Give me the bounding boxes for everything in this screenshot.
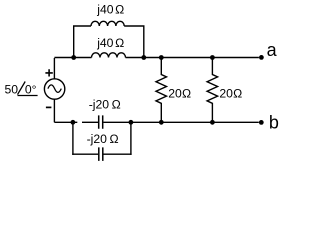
wire: inductor loop top-left lead [73,25,91,27]
svg-text:j40Ω: j40Ω [96,36,124,50]
inductor L1 (j40 ohm, top branch) [91,21,124,26]
+ polarity mark [45,69,52,76]
wire: capacitor loop right vertical [130,122,132,155]
junction dot: capacitor loop left on bottom rail [71,120,76,125]
junction dot: inductor loop right on top rail [141,55,146,60]
svg-text:20Ω: 20Ω [168,86,191,100]
wire: capacitor loop left vertical [72,122,74,155]
wire: source bottom lead [53,99,55,122]
voltage source VS circle [44,79,64,99]
wire: bottom rail segment from source corner [54,121,77,123]
angle symbol slash of source label [18,82,26,95]
junction dot: resistor R1 bottom [159,120,164,125]
wire: bottom rail segment from capacitor C1 to terminal b [103,121,258,123]
junction dot: inductor loop left on top rail [71,55,76,60]
svg-text:a: a [267,40,278,60]
wire: inductor loop left vertical [73,26,75,58]
terminal dot b [259,120,264,125]
resistor R2 (20 ohm, right) [207,58,218,123]
junction dot: resistor R2 bottom [210,120,215,125]
svg-text:20Ω: 20Ω [219,86,242,100]
angle symbol underline of source label [18,95,38,97]
wire: source top lead [53,58,55,79]
svg-text:-j20Ω: -j20Ω [87,132,119,146]
wire: top rail left segment from source corner to coil L2 [54,57,91,59]
junction dot: resistor R1 top [159,55,164,60]
wire: capacitor loop bottom-right lead [104,153,132,155]
- polarity mark [46,106,52,108]
wire: capacitor loop bottom-left lead [72,153,98,155]
svg-text:50: 50 [5,83,19,97]
junction dot: resistor R2 top [210,55,215,60]
wire: top rail right segment from coil L2 to terminal a [126,57,259,59]
inductor L2 (j40 ohm, on main rail) [92,53,126,58]
svg-text:b: b [269,112,279,132]
capacitor C1 (-j20 ohm, on bottom rail) plates [99,115,103,128]
terminal dot a [259,55,264,60]
svg-text:j40Ω: j40Ω [96,2,124,16]
svg-text:0°: 0° [25,83,37,97]
resistor R1 (20 ohm, left) [156,58,167,123]
voltage source sine wave [48,85,61,93]
wire: bottom rail segment to capacitor C1 [82,121,98,123]
wire: inductor loop top-right lead [124,25,144,27]
svg-text:-j20Ω: -j20Ω [89,97,121,111]
wire: inductor loop right vertical [143,26,145,58]
junction dot: capacitor loop right on bottom rail [129,120,134,125]
capacitor C2 (-j20 ohm, lower branch) plates [99,147,103,161]
